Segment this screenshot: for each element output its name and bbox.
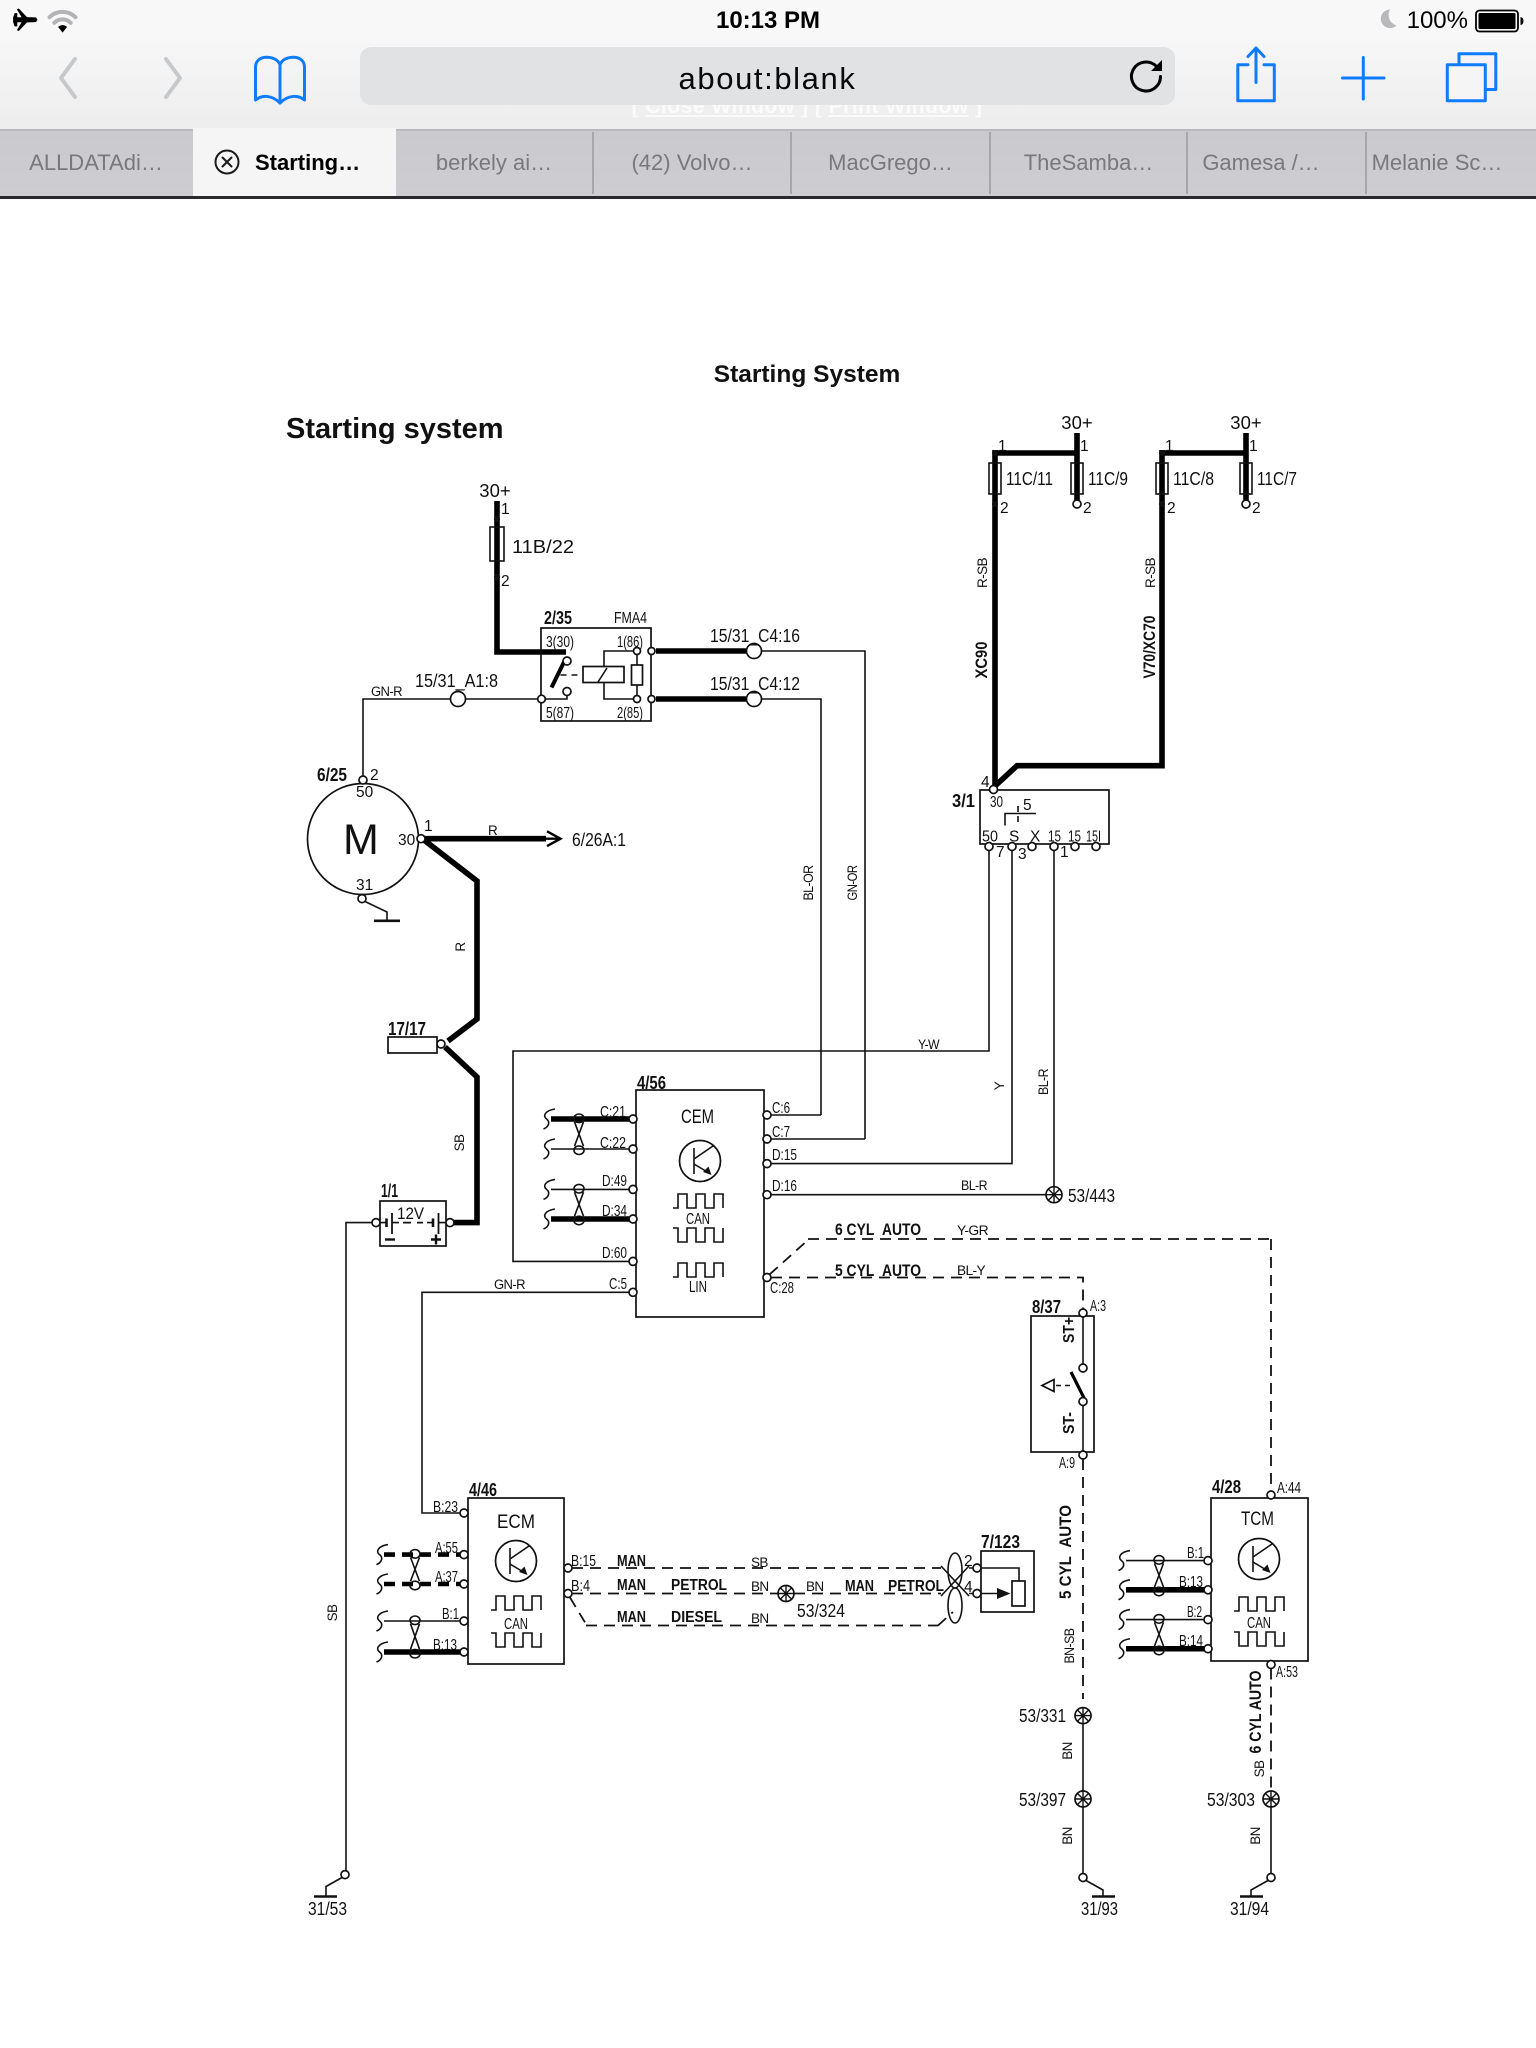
ignition switch key symbol (1005, 814, 1036, 826)
7/123 internal wire (981, 1568, 1019, 1581)
svg-text:MAN: MAN (845, 1578, 874, 1595)
connector 15/31_C4:12 (747, 692, 762, 707)
svg-text:ST-: ST- (1061, 1412, 1078, 1434)
fuse 11C/7 pin 2 (1242, 500, 1250, 508)
wire: coil to pin 1(86) (604, 651, 633, 667)
svg-text:11C/9: 11C/9 (1088, 468, 1128, 489)
wire SB: 17/17 to battery plus (445, 1047, 477, 1223)
svg-text:31/53: 31/53 (308, 1898, 347, 1919)
svg-text:12V: 12V (397, 1204, 425, 1223)
svg-text:V70/XC70: V70/XC70 (1140, 616, 1159, 679)
battery pin plus (446, 1219, 454, 1227)
in-line resistor 17/17 (388, 1037, 437, 1053)
wifi icon (50, 12, 76, 17)
svg-text:DIESEL: DIESEL (671, 1609, 722, 1626)
svg-text:4/56: 4/56 (637, 1072, 666, 1093)
8/37 pin A:3 (1079, 1309, 1087, 1317)
relay switch contact top (563, 657, 571, 665)
fuse 11B/22 pin 2 (494, 574, 500, 580)
svg-text:11C/7: 11C/7 (1257, 468, 1297, 489)
svg-text:B:2: B:2 (1187, 1604, 1202, 1621)
fuse 11C/9 pin 2 (1073, 500, 1081, 508)
battery plus label (431, 1235, 441, 1245)
svg-text:3(30): 3(30) (546, 634, 574, 651)
ignition switch pin 4 (30) (990, 786, 998, 794)
svg-text:BL-OR: BL-OR (801, 865, 816, 901)
svg-text:BN: BN (1248, 1827, 1263, 1845)
fuse 11C/8 pin 1 (1159, 450, 1165, 456)
ECM 4/46 box (468, 1498, 564, 1664)
ignition switch pin S/3 (1008, 843, 1016, 851)
fuse 11B/22 (490, 527, 504, 561)
wire 30+ feed down through fuse to relay (497, 501, 566, 652)
7/123 pin 4 (973, 1590, 981, 1598)
wire GN-OR: connector to vertical (762, 651, 866, 1139)
svg-text:PETROL: PETROL (888, 1578, 944, 1595)
wire BN: 53/303 to ground 31/94 (1270, 1807, 1272, 1874)
svg-text:1: 1 (1249, 438, 1258, 455)
hook TCM B:2 (1119, 1610, 1131, 1630)
wire 6 CYL AUTO / SB dashed: A:53 down (1270, 1669, 1272, 1792)
svg-text:Y-GR: Y-GR (957, 1223, 989, 1238)
7/123 internal resistor (1012, 1581, 1025, 1606)
8/37 internal wire ST+ (1082, 1317, 1084, 1364)
wire SB: battery minus to ground 31/53 (346, 1223, 372, 1871)
hook TCM B:1 (1119, 1551, 1131, 1571)
CEM pin C:22 (629, 1145, 637, 1153)
svg-text:MAN: MAN (617, 1577, 646, 1594)
splice 53/397 (1075, 1791, 1091, 1807)
svg-text:30+: 30+ (479, 480, 510, 501)
svg-text:CAN: CAN (504, 1616, 528, 1633)
ECM pin A:37 (460, 1580, 468, 1588)
wire 6 CYL AUTO dashed: to TCM A:44 (1270, 1239, 1272, 1491)
TCM 4/28 box (1211, 1498, 1308, 1661)
CEM transistor symbol (680, 1141, 721, 1182)
svg-text:CAN: CAN (1247, 1615, 1271, 1632)
bookmarks book icon (256, 57, 305, 103)
relay coil link (dashed) (561, 674, 584, 676)
svg-text:1: 1 (1080, 438, 1089, 455)
svg-text:6 CYL AUTO: 6 CYL AUTO (835, 1220, 921, 1239)
CEM CAN symbol (673, 1194, 723, 1208)
wire A:37 (dashed thick) (384, 1582, 460, 1587)
airplane mode icon (13, 9, 37, 32)
wire R: motor pin 30 down to 17/17 (424, 840, 477, 1041)
wire BN: 53/331 to 53/397 (1082, 1724, 1084, 1791)
svg-text:B:23: B:23 (433, 1499, 458, 1516)
svg-text:A:53: A:53 (1276, 1664, 1298, 1681)
svg-text:D:60: D:60 (602, 1245, 627, 1262)
svg-text:BN: BN (1060, 1742, 1075, 1760)
svg-text:2: 2 (964, 1553, 973, 1570)
svg-text:8/37: 8/37 (1032, 1296, 1061, 1317)
8/37 internal wire ST- (1082, 1405, 1084, 1452)
TCM transistor symbol (1239, 1539, 1280, 1580)
8/37 switch contact top (1079, 1364, 1087, 1372)
twisted pair symbol B:1/B:13 (1155, 1563, 1164, 1587)
motor ground (365, 902, 387, 921)
svg-text:R-SB: R-SB (975, 557, 990, 588)
fuse 11C/11 pin 2 (992, 501, 998, 507)
twisted pair symbol at 7/123 (941, 1566, 969, 1596)
wire MAN DIESEL BN dashed: B:4 branch (570, 1598, 953, 1626)
svg-text:TCM: TCM (1241, 1509, 1274, 1530)
svg-text:15/31_A1:8: 15/31_A1:8 (415, 670, 498, 692)
wire 5 CYL AUTO / BN-SB dashed: A:9 down (1082, 1459, 1084, 1699)
ignition switch pin 15I (1092, 843, 1100, 851)
svg-text:53/324: 53/324 (797, 1600, 845, 1621)
svg-text:MAN: MAN (617, 1609, 646, 1626)
wire B:13 (thick) (384, 1649, 460, 1655)
svg-text:1: 1 (1165, 438, 1174, 455)
svg-text:Starting System: Starting System (714, 361, 901, 388)
wire C:7 to GN-OR (771, 1138, 865, 1140)
8/37 pin A:9 (1079, 1451, 1087, 1459)
svg-text:R-SB: R-SB (1143, 557, 1158, 588)
svg-text:7: 7 (996, 844, 1005, 861)
relay 2/35 box (541, 628, 651, 721)
svg-text:2: 2 (370, 767, 379, 784)
wire: switch bottom to pin 5(87) (545, 696, 567, 700)
CEM pin D:49 (629, 1185, 637, 1193)
new tab plus icon (1343, 58, 1385, 100)
svg-text:BN: BN (751, 1611, 769, 1626)
ignition switch pin 15/1 (1050, 843, 1058, 851)
svg-text:A:3: A:3 (1090, 1298, 1106, 1315)
ECM pin B:23 (460, 1509, 468, 1517)
connector 15/31_A1:8 (451, 692, 466, 707)
CEM pin D:15 (763, 1160, 771, 1168)
splice 53/443 (1046, 1187, 1062, 1203)
fuse 11C/8 pin 2 (1159, 501, 1165, 507)
7/123 internal arrow (981, 1593, 998, 1595)
svg-text:2: 2 (1083, 500, 1092, 517)
CEM pin C:7 (763, 1135, 771, 1143)
TCM pin B:13 (1204, 1586, 1212, 1594)
svg-text:7/123: 7/123 (981, 1531, 1020, 1552)
svg-text:53/397: 53/397 (1019, 1789, 1066, 1810)
svg-text:XC90: XC90 (972, 642, 991, 679)
svg-text:17/17: 17/17 (388, 1018, 426, 1039)
svg-text:31: 31 (356, 877, 373, 894)
wire D:34 (thick) (551, 1216, 629, 1222)
svg-text:CAN: CAN (686, 1211, 710, 1228)
hook C:21 (544, 1109, 556, 1129)
svg-text:31/94: 31/94 (1230, 1898, 1269, 1919)
svg-text:BL-Y: BL-Y (957, 1263, 986, 1278)
ECM pin B:1 (460, 1617, 468, 1625)
TCM pin B:2 (1204, 1616, 1212, 1624)
svg-text:4/46: 4/46 (469, 1479, 497, 1500)
CEM LIN symbol (673, 1263, 723, 1277)
wire BL-OR: connector to vertical (762, 699, 822, 1115)
TCM pin A:44 (1267, 1491, 1275, 1499)
splice 53/303 (1263, 1791, 1279, 1807)
relay edge pin bottom right (648, 696, 655, 703)
svg-text:Y: Y (992, 1081, 1007, 1090)
svg-text:BL-R: BL-R (961, 1178, 988, 1193)
relay internal pin 1(86) (634, 648, 641, 655)
svg-text:PETROL: PETROL (671, 1577, 727, 1594)
svg-text:FMA4: FMA4 (614, 610, 647, 627)
svg-text:GN-OR: GN-OR (845, 865, 860, 901)
fuse 11B/22 pin 1 (494, 516, 500, 522)
CEM pin C:28 (763, 1274, 771, 1282)
ignition switch pin 15b (1071, 843, 1079, 851)
wire: coil to pin 2(85) (604, 683, 633, 700)
fuse 11C/9 (1071, 463, 1083, 494)
svg-text:D:49: D:49 (602, 1173, 627, 1190)
relay resistor (636, 651, 638, 699)
ignition switch pin 50/7 (985, 843, 993, 851)
battery 1/1 box (380, 1201, 446, 1246)
TCM pin A:53 (1267, 1661, 1275, 1669)
starter inhibitor switch 8/37 box (1031, 1316, 1094, 1452)
8/37 switch contact bottom (1079, 1398, 1087, 1406)
battery minus label (385, 1238, 395, 1240)
svg-text:53/443: 53/443 (1068, 1185, 1115, 1206)
ECM CAN symbol (491, 1596, 541, 1610)
svg-text:50: 50 (356, 784, 374, 801)
svg-text:1/1: 1/1 (381, 1180, 398, 1201)
hook B:1 (377, 1611, 389, 1631)
wire MAN PETROL BN dashed: B:4 to 7/123 pin 4 (572, 1593, 941, 1595)
svg-text:C:28: C:28 (770, 1280, 794, 1297)
wire TCM B:1 (1126, 1560, 1204, 1562)
8/37 switch blade (1071, 1372, 1084, 1398)
svg-text:3: 3 (1018, 846, 1027, 863)
17/17 right connector (437, 1040, 445, 1048)
svg-text:15/31_C4:12: 15/31_C4:12 (710, 673, 800, 695)
connector 15/31_C4:16 (747, 644, 762, 659)
TCM pin B:14 (1204, 1645, 1212, 1653)
ECM pin B:13 (460, 1648, 468, 1656)
tab pages icon (1447, 54, 1496, 101)
svg-text:30+: 30+ (1061, 412, 1092, 433)
motor pin 1 (30) (417, 835, 425, 843)
twisted pair symbol B:1/B:13 (411, 1624, 420, 1649)
svg-text:LIN: LIN (689, 1279, 707, 1296)
battery icon (1476, 11, 1518, 32)
wire B:1 (384, 1620, 460, 1622)
wire TCM B:13 (thick) (1126, 1587, 1204, 1593)
svg-text:5: 5 (1023, 797, 1032, 814)
svg-text:2(85): 2(85) (617, 705, 643, 722)
fuse 11C/11 (989, 463, 1001, 494)
wire BL-R: ignition switch pin 15 down (1053, 851, 1055, 1187)
svg-text:2: 2 (501, 573, 510, 590)
battery cells (380, 1222, 446, 1224)
svg-text:D:15: D:15 (772, 1147, 797, 1164)
CEM pin D:60 (629, 1257, 637, 1265)
relay switch contact bottom (563, 688, 571, 696)
connector 7/123 box (981, 1551, 1034, 1612)
wire MAN SB dashed: B:15 to 7/123 pin 2 (572, 1567, 941, 1569)
relay pin 5(87) (538, 695, 546, 703)
CEM pin C:21 (629, 1115, 637, 1123)
svg-text:1: 1 (424, 818, 433, 835)
TCM CAN symbol (1234, 1597, 1284, 1611)
wire D:49 (551, 1188, 629, 1190)
CEM pin C:6 (763, 1111, 771, 1119)
wire BL-R: D:16 to splice 53/443 (771, 1194, 1046, 1196)
relay internal pin 2(85) (634, 696, 641, 703)
CEM 4/56 box (636, 1090, 764, 1317)
fuse 11C/8 (1156, 463, 1168, 494)
twisted pair symbol D:49/D:34 (575, 1192, 584, 1216)
svg-text:SB: SB (1252, 1760, 1267, 1777)
hook TCM B:13 (1119, 1580, 1131, 1600)
svg-text:BL-R: BL-R (1036, 1068, 1051, 1095)
svg-text:3/1: 3/1 (952, 790, 975, 811)
ECM pin A:55 (460, 1551, 468, 1559)
wire C:6 to BL-OR (771, 1114, 821, 1116)
svg-text:2: 2 (1167, 500, 1176, 517)
wire 5 CYL AUTO (BL-Y) dashed (771, 1278, 1083, 1310)
svg-text:11C/11: 11C/11 (1006, 468, 1053, 489)
svg-text:11C/8: 11C/8 (1173, 468, 1214, 489)
hook D:34 (544, 1209, 556, 1229)
relay coil (583, 667, 624, 683)
svg-text:30: 30 (398, 832, 416, 849)
ground 31/94 (1267, 1874, 1275, 1882)
wire TCM B:14 (thick) (1126, 1646, 1204, 1652)
fuse 11C/7 (1240, 463, 1252, 494)
svg-text:4: 4 (981, 774, 990, 791)
splice 53/324 (778, 1586, 794, 1602)
wire 30+ to fuses 11C/8 and 11C/7 (995, 433, 1246, 786)
twisted pair symbol B:2/B:14 (1155, 1622, 1164, 1646)
svg-text:C:21: C:21 (600, 1104, 626, 1121)
svg-text:A:9: A:9 (1059, 1455, 1075, 1472)
ECM transistor symbol (496, 1541, 537, 1582)
svg-text:B:4: B:4 (571, 1578, 590, 1595)
hook D:49 (544, 1179, 556, 1199)
svg-text:1: 1 (998, 438, 1007, 455)
CEM pin D:16 (763, 1191, 771, 1199)
svg-text:D:34: D:34 (602, 1203, 627, 1220)
wire C:21 (thick) (551, 1116, 629, 1122)
TCM pin B:1 (1204, 1557, 1212, 1565)
svg-text:BN: BN (806, 1579, 824, 1594)
hook A:55 (377, 1545, 389, 1565)
starter motor 6/25 (308, 784, 419, 895)
svg-text:ECM: ECM (497, 1512, 535, 1533)
svg-text:CEM: CEM (681, 1107, 714, 1128)
ECM pin B:15 (564, 1564, 572, 1572)
wire R to 6/26A:1 with arrow (425, 836, 546, 842)
relay switch blade (552, 661, 565, 688)
svg-text:MAN: MAN (617, 1553, 646, 1570)
svg-text:Starting system: Starting system (286, 413, 504, 445)
wire 15/31_C4:12 thick segment (656, 696, 746, 702)
ECM pin B:4 (564, 1590, 572, 1598)
wire C:22 (551, 1148, 629, 1150)
wire A:55 (dashed thick) (384, 1552, 460, 1557)
share icon (1238, 48, 1275, 101)
svg-text:15/31_C4:16: 15/31_C4:16 (710, 625, 800, 647)
svg-text:C:5: C:5 (609, 1276, 627, 1293)
ground 31/53 (341, 1871, 349, 1879)
svg-text:53/331: 53/331 (1019, 1705, 1066, 1726)
svg-text:6 CYL AUTO: 6 CYL AUTO (1246, 1671, 1265, 1754)
svg-text:2/35: 2/35 (544, 607, 572, 628)
hook C:22 (544, 1139, 556, 1159)
svg-text:M: M (343, 816, 379, 864)
svg-text:R: R (453, 942, 468, 952)
svg-text:SB: SB (751, 1555, 768, 1570)
hook A:37 (377, 1574, 389, 1594)
reload icon (1132, 62, 1161, 91)
ground 31/93 (1079, 1874, 1087, 1882)
svg-text:B:1: B:1 (1187, 1545, 1204, 1562)
ignition switch pin X (1028, 843, 1036, 851)
svg-text:1: 1 (501, 501, 510, 518)
svg-text:2: 2 (1252, 500, 1261, 517)
svg-text:Y-W: Y-W (918, 1037, 940, 1052)
wire BN: 53/397 to ground 31/93 (1082, 1807, 1084, 1874)
back nav chevron (61, 59, 75, 97)
svg-text:BN: BN (1060, 1827, 1075, 1845)
svg-text:SB: SB (325, 1604, 340, 1621)
wire Y: D:15 to ignition switch pin S (771, 851, 1012, 1164)
fuse 11C/11 pin 1 (992, 450, 998, 456)
svg-text:BN: BN (751, 1579, 769, 1594)
svg-text:2: 2 (1000, 500, 1009, 517)
svg-text:A:44: A:44 (1277, 1480, 1301, 1497)
7/123 pin 2 (973, 1564, 981, 1572)
forward nav chevron (166, 59, 180, 97)
motor pin 2 (50) (359, 776, 367, 784)
battery pin minus (372, 1219, 380, 1227)
svg-text:SB: SB (452, 1134, 467, 1151)
wire 15/31_C4:16 thick segment (656, 648, 746, 654)
svg-text:30+: 30+ (1230, 412, 1261, 433)
wire 30+ to fuses 11C/11 and 11C/9 (995, 433, 1077, 786)
wire 6 CYL AUTO (Y-GR) dashed (770, 1239, 1272, 1275)
svg-text:1: 1 (1060, 844, 1069, 861)
hook B:13 (377, 1642, 389, 1662)
svg-text:GN-R: GN-R (371, 684, 403, 699)
relay edge pin top right (648, 648, 655, 655)
twisted pair symbol C:21/C:22 (575, 1122, 584, 1146)
svg-text:C:22: C:22 (600, 1135, 626, 1152)
splice 53/331 (1075, 1708, 1091, 1724)
wire TCM B:2 (1126, 1619, 1204, 1621)
CEM pin C:5 (629, 1288, 637, 1296)
svg-text:6/25: 6/25 (317, 764, 347, 785)
8/37 actuator arrow (1056, 1385, 1071, 1387)
ignition switch 3/1 box (980, 790, 1109, 844)
svg-text:11B/22: 11B/22 (512, 536, 574, 557)
svg-text:4: 4 (964, 1579, 973, 1596)
moon icon (1381, 10, 1397, 29)
svg-text:6/26A:1: 6/26A:1 (572, 829, 626, 850)
wire GN-R: relay pin 5(87) to motor (363, 699, 538, 777)
wire GN-R: C:5 to ECM B:23 (422, 1292, 629, 1513)
svg-text:5(87): 5(87) (546, 705, 574, 722)
twisted pair symbol A:55/A:37 (411, 1557, 420, 1581)
svg-text:5 CYL AUTO: 5 CYL AUTO (835, 1261, 921, 1280)
active tab close icon (216, 151, 239, 174)
svg-text:GN-R: GN-R (494, 1277, 526, 1292)
svg-text:5 CYL AUTO: 5 CYL AUTO (1056, 1505, 1075, 1599)
svg-text:R: R (488, 823, 498, 838)
hook TCM B:14 (1119, 1639, 1131, 1659)
wire Y-W: ignition switch pin 50 to D:60 (513, 851, 989, 1262)
svg-text:4/28: 4/28 (1212, 1476, 1241, 1497)
